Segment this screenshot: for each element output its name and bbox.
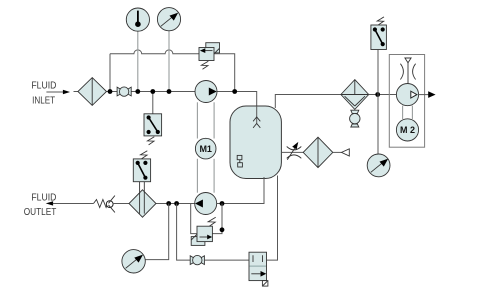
tank return diffuser: [253, 106, 260, 128]
shaft M1-P2: [197, 159, 214, 193]
wire: to exhaust: [333, 151, 342, 153]
auto drain: [350, 110, 360, 127]
pressure gauge G1: [157, 8, 180, 31]
wire: thermometer stem: [137, 31, 139, 92]
water separator WS1: [341, 80, 369, 110]
check valve CV1: [94, 196, 115, 213]
svg-text:OUTLET: OUTLET: [24, 207, 57, 218]
motor M2: [396, 119, 418, 141]
label FLUID OUTLET: [24, 193, 57, 218]
pressure switch PS2: [133, 151, 150, 182]
reservoir tank: [230, 106, 281, 179]
svg-text:INLET: INLET: [32, 96, 55, 107]
wire: gauge G2 branch: [145, 204, 169, 260]
gauge G2: [122, 250, 145, 273]
tank level switches: [237, 155, 242, 167]
wire: drain branch to ball valve B2: [177, 204, 190, 261]
wire: breather line: [281, 151, 303, 153]
pump P1: [195, 81, 217, 103]
thermometer gauge T1: [126, 8, 149, 31]
pressure switch PS3: [371, 17, 387, 50]
wire: separator to vacuum pump: [369, 94, 397, 96]
pump P2: [195, 193, 217, 215]
shaft VP1-M2: [403, 106, 413, 119]
svg-text:M 2: M 2: [400, 125, 415, 135]
wire: vacuum gauge stem: [377, 95, 379, 155]
exhaust silencer: [400, 58, 415, 84]
inlet arrow: [46, 90, 78, 95]
motor M1: [195, 138, 216, 159]
node: junction dots top line: [108, 89, 238, 94]
wire: relief valve return: [214, 54, 235, 92]
wire: outlet main line: [113, 177, 264, 204]
drain valve V2: [249, 252, 268, 286]
wire: vacuum suction from tank top: [275, 95, 341, 109]
wire: B2 to valve V2: [204, 259, 249, 261]
svg-text:FLUID: FLUID: [31, 81, 56, 92]
outlet air arrow: [419, 91, 436, 98]
svg-text:M1: M1: [199, 144, 212, 154]
flow control valve FC1: [287, 142, 302, 160]
exhaust funnel: [342, 149, 350, 156]
node: junction dots outlet line: [166, 201, 224, 206]
shaft P1-M1: [197, 102, 214, 138]
relief valve RV1: [199, 43, 220, 70]
wire: riser to relief line: [109, 54, 111, 92]
wire: pressure switch stem: [152, 92, 154, 114]
label FLUID INLET: [31, 81, 56, 107]
outlet arrow: [46, 201, 94, 205]
filter F1 (inlet): [78, 78, 107, 106]
vacuum gauge G3: [367, 154, 390, 177]
wire: pressure switch stem (vacuum): [377, 50, 379, 95]
wire: gauge stem: [168, 31, 170, 92]
ball valve B1: [117, 87, 131, 96]
relief valve RV2: [191, 217, 216, 245]
wire: top main line y=91.5: [107, 92, 257, 107]
vacuum pump group box: [389, 55, 424, 148]
wire: relief RV2 return: [213, 204, 223, 234]
wire: V2 to tank bottom: [267, 176, 278, 261]
breather filter F3: [303, 137, 333, 167]
wire: relief RV2 feed: [191, 204, 198, 234]
wire: relief supply line with hop-overs: [110, 50, 199, 54]
filter F2 (outlet): [129, 182, 156, 217]
node junction: [375, 92, 380, 97]
vacuum pump VP1: [396, 84, 418, 106]
pressure switch PS1: [144, 114, 162, 145]
ball valve B2: [190, 255, 204, 264]
node: [220, 227, 225, 232]
